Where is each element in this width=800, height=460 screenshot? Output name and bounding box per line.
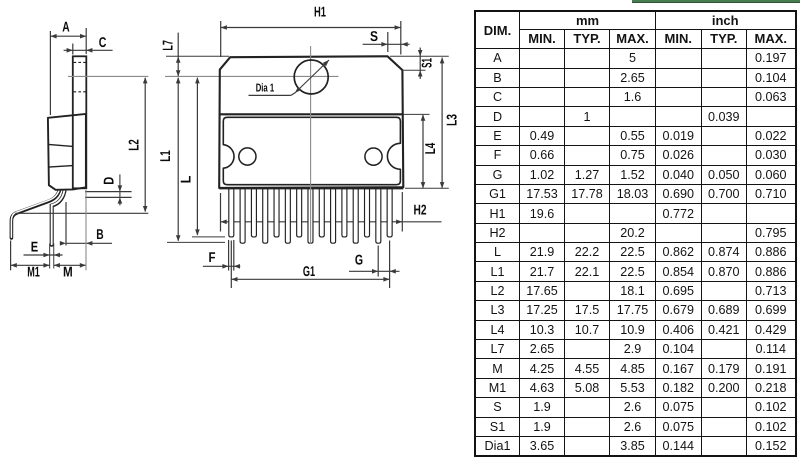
svg-text:F: F: [209, 250, 216, 266]
dimension E: [24, 240, 63, 269]
front view right mounting circle: [365, 148, 382, 165]
svg-text:S1: S1: [420, 58, 436, 68]
front view left mounting circle: [239, 148, 256, 165]
dimension H2 line (behind leads): [221, 192, 442, 232]
svg-text:C: C: [99, 35, 107, 51]
dimension M: [54, 190, 86, 281]
Dia1 diameter arrow: [295, 60, 329, 93]
dimension H1: [221, 5, 401, 58]
svg-text:G1: G1: [303, 264, 315, 280]
hole centerline (front view): [165, 75, 339, 77]
dimension H2 label: [414, 203, 427, 219]
dimension G: [349, 246, 400, 277]
dimension A: [50, 20, 86, 116]
dimension C: [64, 35, 113, 55]
svg-text:S: S: [370, 29, 378, 45]
dimension L4: [404, 114, 440, 188]
svg-text:L2: L2: [126, 139, 142, 151]
side view tab hole hidden edge (dashed top): [74, 61, 86, 63]
svg-text:H1: H1: [314, 5, 326, 21]
package vertical centerline: [310, 46, 312, 244]
svg-text:H2: H2: [414, 203, 427, 219]
svg-text:G: G: [355, 253, 363, 269]
dimension L: [179, 77, 226, 237]
dimension L2: [126, 77, 147, 212]
front view leads (15 pins): [229, 189, 392, 244]
svg-text:E: E: [31, 240, 38, 256]
dimension D: [85, 174, 132, 205]
svg-text:L4: L4: [423, 143, 439, 155]
svg-text:L3: L3: [445, 114, 461, 126]
dimension L3: [405, 57, 461, 188]
dimension S: [363, 29, 410, 52]
Dia1 label and leader: [249, 82, 296, 95]
dimension M1: [11, 241, 50, 281]
svg-text:Dia 1: Dia 1: [256, 82, 275, 94]
svg-text:L1: L1: [158, 150, 174, 162]
svg-text:B: B: [96, 227, 103, 243]
svg-text:D: D: [102, 177, 118, 185]
dimension L1: [158, 77, 225, 242]
svg-text:L: L: [179, 175, 195, 183]
dimension L7: [161, 33, 229, 77]
dimension table: [474, 10, 797, 457]
side view tab hole hidden edge (dashed bottom): [74, 91, 86, 93]
side view body facet lines: [48, 144, 72, 167]
side view heatsink tab: [73, 56, 87, 188]
dimension F: [203, 240, 240, 271]
dimension B: [60, 202, 112, 246]
green header bar fragment: [632, 0, 800, 2]
svg-text:M: M: [63, 265, 73, 281]
hole Dia1: [294, 60, 328, 94]
front view package outline: [219, 56, 403, 188]
side view molded body: [48, 114, 86, 190]
dimension G1: [231, 241, 389, 289]
side view straight lead (front row): [52, 188, 65, 245]
front view body bottom thick line: [219, 187, 403, 189]
front view tab/body shoulder line: [220, 113, 404, 115]
front view molded body inner outline: [223, 117, 400, 184]
svg-text:L7: L7: [161, 40, 177, 51]
svg-text:M1: M1: [27, 265, 40, 281]
dimension S1: [390, 48, 449, 80]
seating plane line: [15, 212, 148, 214]
svg-text:A: A: [62, 20, 69, 36]
side view bent lead (rear row): [11, 188, 60, 238]
hole centerline (side view): [68, 75, 148, 77]
